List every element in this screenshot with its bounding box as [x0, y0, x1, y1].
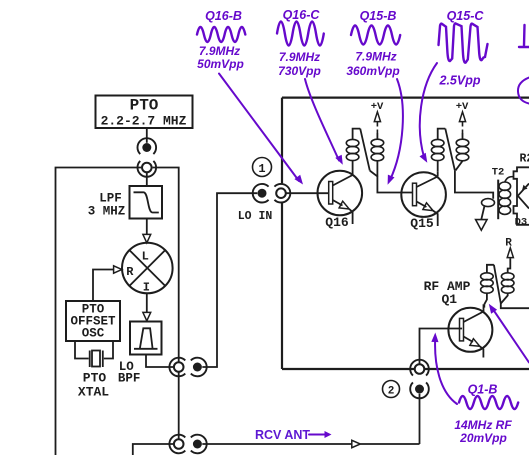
transformer T-Q15: right coil	[456, 133, 469, 170]
svg-text:Q1: Q1	[441, 292, 457, 307]
wire mixer to LO BPF	[146, 293, 148, 312]
connector P4 plug (filled)	[410, 382, 429, 398]
+V supply Q15	[456, 101, 469, 133]
annotation Q15-C	[439, 9, 488, 88]
svg-text:Q15-B: Q15-B	[360, 9, 397, 23]
svg-text:LPF: LPF	[99, 192, 122, 206]
svg-text:7.9MHz: 7.9MHz	[355, 50, 396, 64]
svg-text:L: L	[142, 250, 149, 264]
svg-text:BPF: BPF	[118, 371, 141, 385]
annotation fragment right edge: pulses	[518, 25, 529, 104]
arrow into mixer left	[114, 266, 122, 273]
svg-text:2.2-2.7 MHZ: 2.2-2.7 MHZ	[101, 114, 187, 129]
svg-text:D3: D3	[515, 217, 528, 229]
leader Q16-C	[305, 79, 343, 165]
svg-text:3 MHZ: 3 MHZ	[88, 205, 126, 219]
svg-text:360mVpp: 360mVpp	[346, 64, 399, 78]
wire connector up to LO IN line	[202, 193, 257, 367]
wire left run and down left edge	[56, 168, 142, 455]
wire right run to vertical x178	[153, 168, 179, 363]
leader Q15-B	[388, 79, 403, 185]
transformer T-Q15: left coil	[431, 129, 445, 172]
wire OSC to mixer	[93, 270, 114, 302]
LPF box	[130, 186, 163, 219]
label RF AMP Q1	[424, 279, 471, 307]
connector J1 jack (open)	[138, 161, 157, 177]
connector P5 plug (filled)	[191, 435, 207, 454]
svg-text:R: R	[126, 265, 134, 279]
svg-text:1: 1	[258, 162, 265, 176]
big box (shield)	[282, 98, 529, 369]
crystal Y1	[90, 351, 103, 368]
wire Q15 collector	[437, 171, 439, 176]
PTO OFFSET OSC box	[66, 301, 120, 341]
connector J5 jack (open)	[169, 435, 185, 454]
wire x178 between connectors	[178, 372, 180, 439]
transformer T-Q1: right coil	[501, 258, 514, 303]
svg-text:RCV ANT: RCV ANT	[255, 428, 310, 442]
svg-text:PTO: PTO	[83, 371, 107, 386]
svg-text:R: R	[505, 238, 512, 250]
arrow into mixer	[143, 234, 151, 242]
wire connector2 to Q1 base	[420, 329, 463, 365]
label PTO XTAL	[78, 371, 109, 400]
transformer T-Q15: core diagonal	[445, 129, 455, 171]
svg-text:R2: R2	[520, 153, 529, 166]
wire LPF to mixer	[146, 219, 148, 235]
wire PTO to connector	[146, 128, 148, 143]
svg-text:7.9MHz: 7.9MHz	[279, 50, 320, 64]
wire loop to ground	[481, 206, 484, 220]
connector P1 plug (filled)	[138, 138, 157, 154]
arrow into LO BPF	[143, 312, 151, 320]
transistor Q15	[401, 172, 446, 226]
svg-text:OSC: OSC	[82, 327, 105, 341]
transformer T-Q16: right coil	[371, 133, 384, 176]
+V supply Q16	[371, 101, 384, 133]
svg-text:20mVpp: 20mVpp	[459, 431, 507, 445]
node 2 circle	[383, 381, 400, 398]
leader Q15-C	[420, 63, 438, 163]
svg-text:7.9MHz: 7.9MHz	[199, 44, 240, 58]
svg-text:50mVpp: 50mVpp	[197, 57, 244, 71]
RX mixer box	[514, 167, 529, 225]
svg-text:14MHz RF: 14MHz RF	[454, 418, 512, 432]
R supply	[505, 238, 513, 258]
annotation Q16-C	[277, 8, 324, 78]
svg-text:730Vpp: 730Vpp	[278, 64, 321, 78]
label RCV ANT	[255, 428, 332, 442]
svg-text:2: 2	[388, 385, 395, 397]
svg-text:PTO: PTO	[130, 97, 159, 115]
node 1 circle	[253, 158, 272, 177]
label LO BPF	[118, 360, 141, 386]
T2 secondary coil	[499, 177, 514, 215]
svg-text:Q15: Q15	[410, 216, 434, 231]
svg-text:LO IN: LO IN	[238, 210, 273, 223]
svg-text:Q16-B: Q16-B	[205, 9, 242, 23]
leader Q16-B	[219, 74, 303, 185]
T2 primary loop	[482, 199, 495, 207]
LPF label	[88, 192, 126, 219]
wire T-Q15 output to T2	[455, 171, 493, 199]
transformer T-Q16: left coil	[346, 129, 360, 172]
connector P3 plug (filled)	[253, 184, 269, 203]
connector P2 plug (filled)	[191, 358, 207, 377]
transformer T-Q1: left coil	[481, 265, 494, 305]
T2 core	[497, 180, 499, 220]
wire Q1 collector	[483, 304, 485, 307]
mixer U1	[122, 243, 173, 295]
svg-text:Q1-B: Q1-B	[468, 383, 498, 397]
leader Q1 collector	[489, 304, 529, 363]
annotation Q15-B	[346, 9, 400, 78]
transformer T-Q16: core diagonal	[360, 129, 370, 171]
ground triangle	[476, 220, 487, 231]
crystal Y1 wiring	[75, 341, 113, 359]
svg-text:Q15-C: Q15-C	[447, 9, 485, 23]
wire LO BPF to connectors	[146, 355, 174, 368]
RCV ANT line left	[133, 444, 174, 455]
wire T-Q1 output to right	[501, 304, 529, 309]
PTO block	[96, 96, 193, 129]
transistor Q16	[318, 171, 363, 224]
svg-text:I: I	[143, 281, 150, 295]
wire connector to LPF	[146, 172, 148, 186]
transformer T-Q1: core diagonal	[494, 265, 501, 304]
svg-text:Q16-C: Q16-C	[283, 8, 321, 22]
svg-text:Q16: Q16	[325, 215, 349, 230]
connector J3 jack (open)	[274, 184, 290, 203]
connector J2 jack (open)	[169, 358, 185, 377]
wire T-Q16 to Q15 base	[370, 171, 416, 193]
svg-text:T2: T2	[492, 167, 505, 179]
annotation Q16-B	[197, 9, 245, 71]
LO BPF box	[130, 322, 162, 355]
transistor Q1	[448, 304, 492, 357]
wire LO IN to Q16 base	[286, 192, 330, 194]
leader Q1-B	[431, 333, 457, 405]
annotation Q1-B	[454, 383, 518, 446]
wire connector2 down to RCV line	[419, 394, 421, 444]
open arrow on RCV line	[352, 440, 361, 447]
svg-text:XTAL: XTAL	[78, 385, 109, 400]
connector J4 jack (open)	[410, 360, 429, 376]
svg-text:2.5Vpp: 2.5Vpp	[439, 74, 481, 88]
RCV ANT line right	[202, 443, 419, 445]
